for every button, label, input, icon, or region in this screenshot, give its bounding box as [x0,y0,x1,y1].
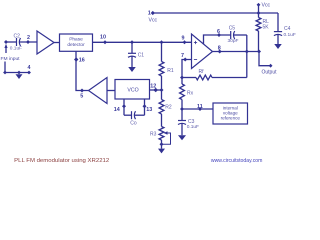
ground input [16,74,23,79]
pin 10 [103,40,107,44]
svg-text:13: 13 [146,107,152,113]
capacitor C4 0.1uF [277,13,279,32]
amplifier A1 input buffer [37,31,54,54]
pin 5 [80,89,84,93]
R3 wiper arm [162,133,171,144]
svg-text:Rf: Rf [199,69,205,75]
svg-text:14: 14 [114,107,120,113]
svg-text:7: 7 [181,53,184,59]
wire FM input node to C2 [6,41,17,43]
svg-text:0.1uF: 0.1uF [284,32,296,38]
wire RL bottom to output node [258,31,260,52]
pin 4 [27,71,31,75]
wire R2 to R3 [161,114,163,127]
svg-text:reference: reference [221,115,241,120]
wire A3 to VCO [107,90,115,92]
resistor RL 5K [258,13,260,18]
capacitor C2 0.1uF [16,38,18,46]
svg-text:Vcc: Vcc [149,17,158,23]
ground under C1 [128,67,136,72]
capacitor C3 0.1uF [181,109,183,120]
svg-text:0.1uF: 0.1uF [10,46,22,52]
phase detector block [60,34,93,51]
svg-text:C1: C1 [138,53,145,59]
node R1 junction [160,40,164,44]
resistor R2 [159,100,164,115]
svg-text:0.1uF: 0.1uF [187,124,199,130]
svg-text:4: 4 [28,65,31,71]
svg-text:6: 6 [217,29,220,35]
ground under C3 [178,135,186,140]
resistor Rx [181,78,183,85]
pin 2 [26,40,30,44]
capacitor C5 30pF [230,31,232,39]
pin 12 wire VCO to R column [150,89,162,91]
resistor Rf feedback [182,77,196,79]
svg-text:Output: Output [262,70,278,76]
node FM input junction [4,40,8,44]
resistor R1 [161,42,163,61]
wire R1 to R2 [161,76,163,100]
ground under R3 [161,144,163,148]
svg-text:www.circuitstoday.com: www.circuitstoday.com [210,158,263,164]
svg-text:Rx: Rx [187,90,194,96]
svg-text:C5: C5 [229,25,236,31]
svg-text:Phase: Phase [69,37,83,43]
svg-text:5: 5 [80,94,83,100]
svg-text:5K: 5K [263,25,270,31]
svg-text:16: 16 [79,58,85,64]
node C1 junction [130,40,134,44]
svg-text:1: 1 [148,11,151,17]
wire A1 to phase detector [54,42,60,44]
svg-text:9: 9 [182,35,185,41]
svg-text:C2: C2 [14,33,21,39]
svg-text:12: 12 [150,84,156,90]
svg-text:VCO: VCO [127,88,138,94]
op-amp U2 comparator [192,34,213,69]
pin 9 [183,40,187,44]
svg-text:FM input: FM input [1,56,21,62]
pin 6 wire and stub [204,35,231,44]
wire output row pin 8 [213,51,260,53]
svg-text:10: 10 [100,35,106,41]
svg-text:8: 8 [218,45,221,51]
wire C5/Rf vertical [246,35,248,78]
svg-text:30pF: 30pF [228,38,239,44]
node Vcc terminal top right [258,6,260,14]
svg-text:R3: R3 [150,131,157,137]
VCO block [115,80,150,100]
svg-text:C4: C4 [284,26,291,32]
VCO pin 14 stub [123,99,125,115]
svg-text:Co: Co [130,121,137,127]
ground under C4 [274,44,282,49]
svg-text:Vcc: Vcc [262,3,271,9]
wire top Vcc rail pin1 to C4 [153,12,278,14]
pin 11 [198,107,202,111]
svg-text:R1: R1 [167,68,174,74]
internal voltage reference block [213,103,248,124]
capacitor Co [124,114,132,116]
pin 16 marker [74,57,78,61]
svg-text:2: 2 [27,35,30,41]
svg-text:C3: C3 [188,119,195,125]
svg-text:detector: detector [67,42,85,48]
node 11 junction [180,107,184,111]
svg-text:R2: R2 [165,104,172,110]
pin 7 wire [182,60,192,78]
wire C2 to A1 [20,41,38,43]
svg-text:11: 11 [197,104,203,110]
amplifier A3 VCO buffer [89,78,108,104]
VCO pin 13 stub [144,99,146,115]
svg-text:PLL FM demodulator using XR221: PLL FM demodulator using XR2212 [14,158,109,164]
pin 1 (Vcc supply pin) [151,11,155,15]
wire pin 16: phase detector to VCO buffer [76,51,89,90]
FM input terminal arrow [4,44,7,48]
wire to internal reference [182,108,213,110]
wire output drop [259,52,270,66]
capacitor C1 [131,42,133,53]
wire input ground row [5,72,29,74]
potentiometer R3 [159,127,164,141]
wire main row: phase detector out to op-amp pin 9 [93,41,192,43]
